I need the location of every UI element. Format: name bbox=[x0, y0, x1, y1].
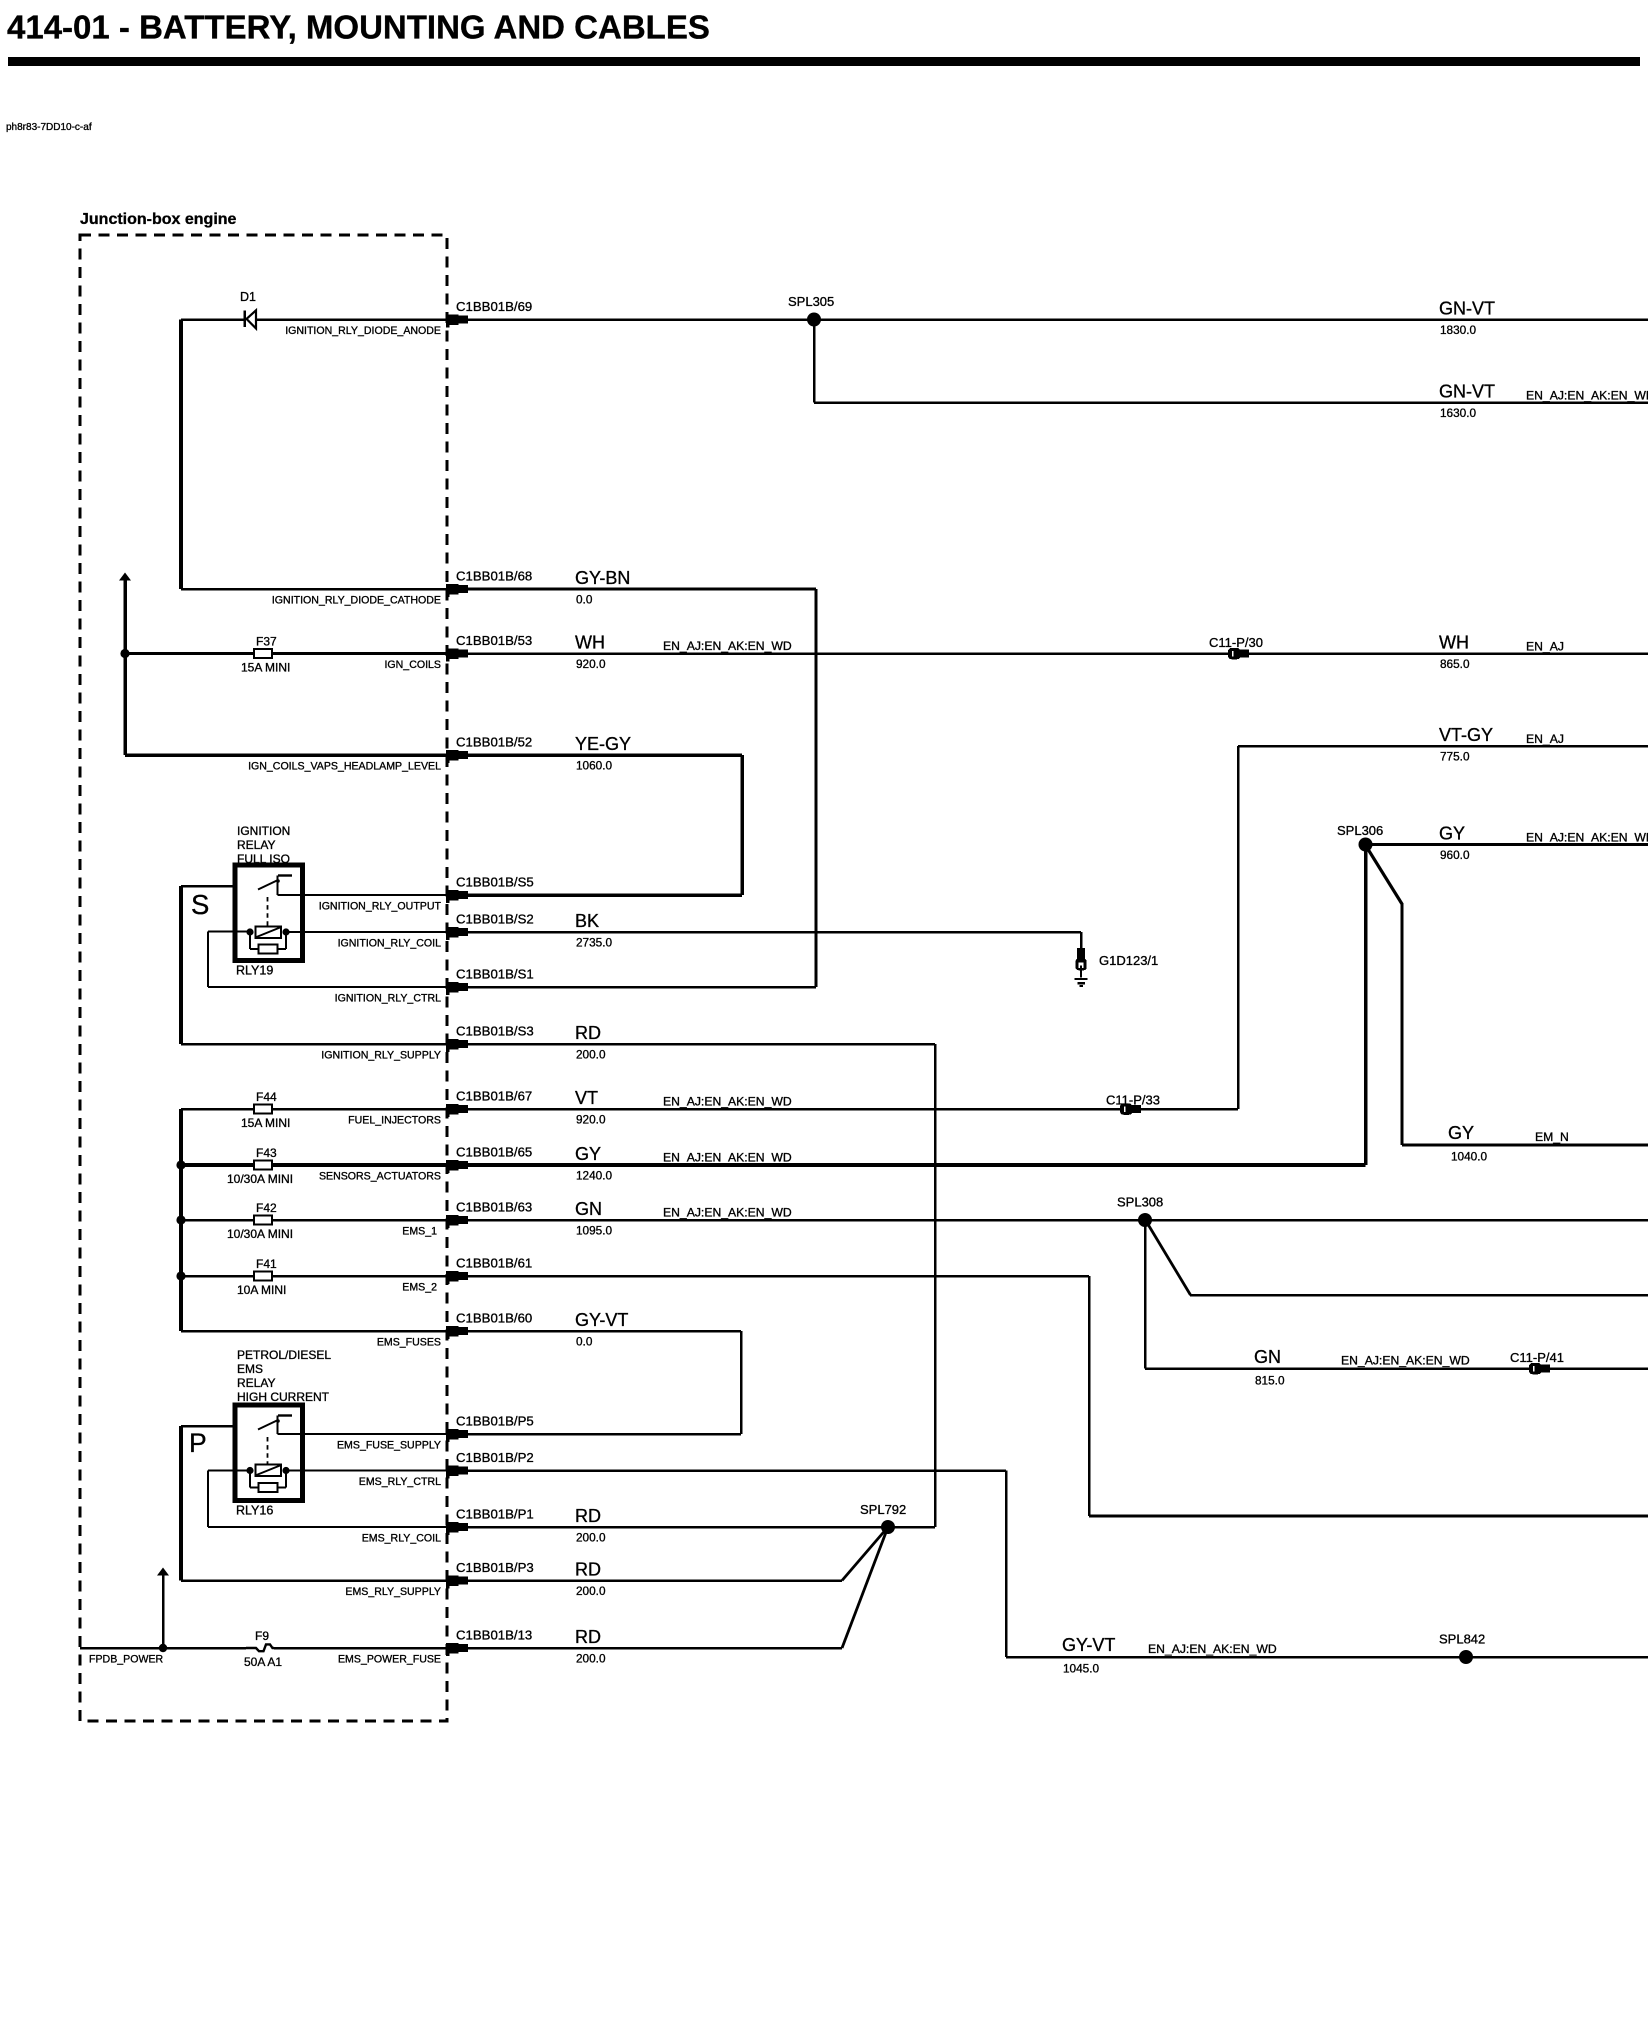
power arrow up (FPDB feed) bbox=[157, 1568, 169, 1649]
wire VT C11-P/33 to riser bbox=[1141, 1108, 1238, 1111]
relay RLY19 switch bbox=[258, 876, 292, 896]
label C1BB01B/67 bbox=[456, 1089, 532, 1104]
svg-text:PETROL/DIESEL: PETROL/DIESEL bbox=[237, 1348, 331, 1362]
connector C11-P/33 bbox=[1106, 1093, 1160, 1115]
svg-text:SPL305: SPL305 bbox=[788, 294, 834, 309]
wire: relay P coil left to ctrl bbox=[207, 1470, 446, 1529]
signal label EMS_RLY_CTRL bbox=[359, 1476, 441, 1488]
label C1BB01B/69 bbox=[456, 299, 532, 314]
svg-text:200.0: 200.0 bbox=[576, 1048, 606, 1062]
wire label GY-BN (0.0) bbox=[575, 568, 630, 607]
svg-text:EMS_FUSES: EMS_FUSES bbox=[377, 1337, 441, 1349]
svg-text:10/30A MINI: 10/30A MINI bbox=[227, 1172, 293, 1186]
fuse F37 bbox=[241, 635, 290, 675]
svg-text:C1BB01B/P5: C1BB01B/P5 bbox=[456, 1414, 534, 1429]
relay RLY19 actuator dashed link bbox=[267, 897, 269, 926]
wire FPDB_POWER row bbox=[80, 1647, 446, 1650]
wire EMS_FUSES row bbox=[181, 1330, 446, 1333]
svg-text:IGNITION: IGNITION bbox=[237, 824, 290, 838]
label C1BB01B/68 bbox=[456, 569, 532, 584]
svg-text:C11-P/41: C11-P/41 bbox=[1510, 1350, 1564, 1365]
svg-text:3: 3 bbox=[449, 1163, 453, 1170]
svg-text:EN_AJ: EN_AJ bbox=[1526, 732, 1564, 746]
wire RD pin P3 to diagonal bbox=[468, 1579, 842, 1582]
signal label IGNITION_RLY_DIODE_CATHODE bbox=[272, 595, 441, 607]
fuse F41 bbox=[237, 1257, 286, 1297]
svg-text:EMS_POWER_FUSE: EMS_POWER_FUSE bbox=[338, 1654, 441, 1666]
relay RLY16 name bbox=[236, 1504, 273, 1518]
wire label WH (865.0) bbox=[1439, 633, 1564, 672]
connector C11-P/30 bbox=[1209, 635, 1263, 659]
svg-text:D1: D1 bbox=[240, 290, 256, 304]
svg-text:0.0: 0.0 bbox=[576, 593, 593, 607]
fuse bus vertical bbox=[179, 1109, 183, 1331]
wire: relay S coil left to ctrl bbox=[207, 931, 446, 989]
pin C1BB01B/S2 bbox=[446, 927, 468, 940]
svg-text:C1BB01B/52: C1BB01B/52 bbox=[456, 735, 532, 750]
svg-text:0.0: 0.0 bbox=[576, 1335, 593, 1349]
relay RLY16 coil bbox=[256, 1465, 282, 1477]
splice SPL308 bbox=[1117, 1195, 1163, 1228]
wire label GN (1095.0) bbox=[575, 1199, 792, 1238]
wire F37 row bbox=[125, 652, 446, 655]
svg-text:RELAY: RELAY bbox=[237, 838, 275, 852]
svg-text:10A MINI: 10A MINI bbox=[237, 1283, 286, 1297]
svg-text:F9: F9 bbox=[255, 1629, 269, 1643]
svg-text:200.0: 200.0 bbox=[576, 1652, 606, 1666]
svg-text:15A MINI: 15A MINI bbox=[241, 1116, 290, 1130]
svg-text:G1D123/1: G1D123/1 bbox=[1099, 953, 1158, 968]
fuse F42 bbox=[227, 1201, 293, 1241]
label C1BB01B/P3 bbox=[456, 1560, 534, 1575]
splice SPL792 bbox=[860, 1502, 906, 1534]
signal label EMS_FUSES bbox=[377, 1337, 441, 1349]
svg-text:RELAY: RELAY bbox=[237, 1376, 275, 1390]
wire: riser to VT-GY row bbox=[1237, 746, 1240, 1109]
label C1BB01B/P5 bbox=[456, 1414, 534, 1429]
svg-text:GY: GY bbox=[1448, 1123, 1474, 1143]
wire: SPL308 diagonal branch bbox=[1146, 1221, 1191, 1295]
svg-text:SPL306: SPL306 bbox=[1337, 823, 1383, 838]
svg-text:EMS_RLY_COIL: EMS_RLY_COIL bbox=[362, 1533, 441, 1545]
wire label GN-VT (1830.0) bbox=[1439, 299, 1495, 338]
wire VT pin 67 to C11-P/33 bbox=[468, 1108, 1121, 1111]
wire RD pin 13 to diagonal bbox=[468, 1647, 842, 1650]
svg-text:3: 3 bbox=[449, 1646, 453, 1653]
relay RLY19 coil terminal dots bbox=[246, 928, 289, 935]
splice SPL305 bbox=[788, 294, 834, 327]
svg-text:C1BB01B/53: C1BB01B/53 bbox=[456, 633, 532, 648]
svg-text:IGNITION_RLY_CTRL: IGNITION_RLY_CTRL bbox=[335, 993, 441, 1005]
svg-text:200.0: 200.0 bbox=[576, 1531, 606, 1545]
svg-text:C1BB01B/P3: C1BB01B/P3 bbox=[456, 1560, 534, 1575]
svg-text:SENSORS_ACTUATORS: SENSORS_ACTUATORS bbox=[319, 1171, 441, 1183]
svg-text:IGN_COILS_VAPS_HEADLAMP_LEVEL: IGN_COILS_VAPS_HEADLAMP_LEVEL bbox=[248, 761, 441, 773]
splice SPL842 bbox=[1439, 1632, 1485, 1665]
junction box dashed border bbox=[80, 235, 447, 1721]
fuse F9 strip bbox=[244, 1629, 282, 1669]
pin C1BB01B/P3 bbox=[446, 1575, 468, 1588]
wire label WH (920.0) bbox=[575, 633, 792, 672]
wire pin S1 stub bbox=[468, 986, 816, 989]
wire label GY-VT (0.0) bbox=[575, 1310, 628, 1349]
svg-text:GN-VT: GN-VT bbox=[1439, 382, 1495, 402]
svg-text:3: 3 bbox=[449, 1469, 453, 1476]
wire: relay S supply bus vertical bbox=[179, 886, 183, 1044]
signal label IGNITION_RLY_CTRL bbox=[335, 993, 441, 1005]
wire GY SPL306 to right edge bbox=[1366, 843, 1648, 846]
svg-text:960.0: 960.0 bbox=[1440, 848, 1470, 862]
fuse F43 bbox=[227, 1146, 293, 1186]
junction dot F42 bbox=[176, 1215, 185, 1224]
splice SPL306 bbox=[1337, 823, 1383, 852]
wire GY-VT pin 60 loop bbox=[468, 1330, 742, 1436]
pin C1BB01B/61 bbox=[446, 1271, 468, 1284]
junction dot F37 feed bbox=[120, 649, 129, 658]
svg-text:3: 3 bbox=[449, 1329, 453, 1336]
pin C1BB01B/13 bbox=[446, 1643, 468, 1656]
svg-text:920.0: 920.0 bbox=[576, 1113, 606, 1127]
ground G1D123/1 bbox=[1075, 948, 1159, 987]
svg-text:FUEL_INJECTORS: FUEL_INJECTORS bbox=[348, 1115, 441, 1127]
svg-text:3: 3 bbox=[449, 1107, 453, 1114]
label C1BB01B/53 bbox=[456, 633, 532, 648]
svg-text:RD: RD bbox=[575, 1506, 601, 1526]
svg-text:3: 3 bbox=[449, 652, 453, 659]
label C1BB01B/60 bbox=[456, 1311, 532, 1326]
relay RLY19 captions bbox=[237, 824, 290, 866]
wire: diode loop vertical (anode branch) bbox=[179, 320, 183, 590]
svg-text:FPDB_POWER: FPDB_POWER bbox=[89, 1654, 164, 1666]
svg-text:3: 3 bbox=[449, 1525, 453, 1532]
pin C1BB01B/65 bbox=[446, 1160, 468, 1173]
sheet reference text bbox=[6, 122, 92, 133]
svg-text:920.0: 920.0 bbox=[576, 657, 606, 671]
signal label EMS_FUSE_SUPPLY bbox=[337, 1440, 441, 1452]
pin C1BB01B/69 bbox=[446, 314, 468, 327]
wire WH pin 53 to C11-P/30 bbox=[468, 652, 1229, 655]
svg-text:GN-VT: GN-VT bbox=[1439, 299, 1495, 319]
svg-text:3: 3 bbox=[449, 930, 453, 937]
wire: vertical 68 to S1 row bbox=[815, 589, 818, 987]
relay RLY16 captions bbox=[237, 1348, 331, 1404]
wire label RD (200.0) P3 bbox=[575, 1560, 606, 1599]
label C1BB01B/P1 bbox=[456, 1507, 534, 1522]
relay RLY19 name bbox=[236, 964, 273, 978]
wire GN SPL308 to right edge bbox=[1145, 1219, 1648, 1222]
wire label YE-GY (1060.0) bbox=[575, 734, 631, 773]
junction dot F43 bbox=[176, 1160, 185, 1169]
svg-text:1045.0: 1045.0 bbox=[1063, 1662, 1100, 1676]
pin C1BB01B/P1 bbox=[446, 1522, 468, 1535]
svg-text:2: 2 bbox=[449, 318, 453, 325]
svg-text:200.0: 200.0 bbox=[576, 1584, 606, 1598]
wire: relay S coil to pin S2 bbox=[286, 931, 446, 933]
signal label EMS_RLY_SUPPLY bbox=[345, 1586, 441, 1598]
svg-text:RD: RD bbox=[575, 1560, 601, 1580]
wire: relay P supply to pin P3 bbox=[181, 1579, 446, 1582]
wire GN-VT pin 69 to SPL305 bbox=[468, 318, 814, 321]
signal label IGNITION_RLY_COIL bbox=[338, 938, 442, 950]
svg-text:1630.0: 1630.0 bbox=[1440, 406, 1477, 420]
svg-text:GY-VT: GY-VT bbox=[575, 1310, 628, 1330]
wire: diagonal P3 to SPL792 bbox=[842, 1527, 888, 1581]
relay RLY19 letter S bbox=[191, 889, 209, 920]
wire: diode D1 to pin 69 bbox=[256, 318, 446, 321]
svg-text:ph8r83-7DD10-c-af: ph8r83-7DD10-c-af bbox=[6, 122, 92, 133]
svg-text:EM_N: EM_N bbox=[1535, 1130, 1569, 1144]
signal label IGNITION_RLY_SUPPLY bbox=[321, 1050, 441, 1062]
svg-text:C1BB01B/P2: C1BB01B/P2 bbox=[456, 1450, 534, 1465]
wire: relay S output to pin S5 bbox=[278, 894, 447, 896]
svg-text:3: 3 bbox=[449, 985, 453, 992]
junction dot FPDB feed bbox=[159, 1644, 167, 1652]
wire: SPL306 diagonal branch bbox=[1366, 846, 1404, 1145]
svg-text:3: 3 bbox=[449, 1218, 453, 1225]
wire GN pin 63 to SPL308 bbox=[468, 1219, 1145, 1222]
wire: relay P supply bus vertical bbox=[179, 1426, 183, 1581]
svg-text:1060.0: 1060.0 bbox=[576, 759, 613, 773]
svg-text:EN_AJ:EN_AK:EN_WD: EN_AJ:EN_AK:EN_WD bbox=[663, 1095, 792, 1109]
wire label GY (1240.0) bbox=[575, 1144, 792, 1183]
svg-text:IGNITION_RLY_DIODE_ANODE: IGNITION_RLY_DIODE_ANODE bbox=[285, 325, 441, 337]
power arrow up (F37 feed) bbox=[119, 573, 131, 756]
wire YE-GY row 52 bbox=[125, 753, 446, 757]
svg-text:EN_AJ:EN_AK:EN_WD: EN_AJ:EN_AK:EN_WD bbox=[1526, 831, 1648, 845]
label C1BB01B/63 bbox=[456, 1200, 532, 1215]
wire: diagonal 13 to SPL792 bbox=[842, 1527, 888, 1648]
svg-text:EN_AJ:EN_AK:EN_WD: EN_AJ:EN_AK:EN_WD bbox=[1526, 389, 1648, 403]
svg-text:SPL308: SPL308 bbox=[1117, 1195, 1163, 1210]
svg-text:EN_AJ:EN_AK:EN_WD: EN_AJ:EN_AK:EN_WD bbox=[663, 639, 792, 653]
wire YE-GY pin 52 loop bbox=[468, 753, 744, 897]
svg-text:F37: F37 bbox=[256, 635, 277, 649]
wire: relay P coil to pin P2 bbox=[286, 1470, 446, 1472]
svg-text:F41: F41 bbox=[256, 1257, 277, 1271]
relay RLY16 actuator dashed link bbox=[267, 1437, 269, 1464]
svg-text:HIGH CURRENT: HIGH CURRENT bbox=[237, 1390, 330, 1404]
signal label SENSORS_ACTUATORS bbox=[319, 1171, 441, 1183]
svg-text:GY-VT: GY-VT bbox=[1062, 1635, 1115, 1655]
wire: relay P output to pin P5 bbox=[278, 1433, 447, 1435]
wire: vertical 61 drop bbox=[1088, 1276, 1091, 1516]
wire GY-BN pin 68 to corner bbox=[468, 588, 816, 591]
svg-text:SPL842: SPL842 bbox=[1439, 1632, 1485, 1647]
svg-text:RD: RD bbox=[575, 1023, 601, 1043]
svg-text:C11-P/33: C11-P/33 bbox=[1106, 1093, 1160, 1108]
wire RD pin P1 to riser bbox=[468, 1526, 935, 1529]
label C1BB01B/65 bbox=[456, 1145, 532, 1160]
wire row 1516 to right edge bbox=[1089, 1515, 1648, 1518]
svg-text:WH: WH bbox=[1439, 633, 1469, 653]
svg-text:S: S bbox=[191, 889, 209, 920]
svg-text:C1BB01B/S3: C1BB01B/S3 bbox=[456, 1024, 534, 1039]
label C1BB01B/52 bbox=[456, 735, 532, 750]
svg-text:1830.0: 1830.0 bbox=[1440, 323, 1477, 337]
title rule bbox=[8, 57, 1640, 66]
svg-text:865.0: 865.0 bbox=[1440, 657, 1470, 671]
svg-text:1240.0: 1240.0 bbox=[576, 1169, 613, 1183]
junction dot F41 bbox=[176, 1271, 185, 1280]
svg-text:3: 3 bbox=[449, 753, 453, 760]
signal label FPDB_POWER bbox=[89, 1654, 164, 1666]
svg-text:775.0: 775.0 bbox=[1440, 750, 1470, 764]
wire F44 row bbox=[181, 1108, 446, 1111]
svg-text:C11-P/30: C11-P/30 bbox=[1209, 635, 1263, 650]
relay RLY19 resistor loop bbox=[249, 932, 287, 954]
svg-text:VT-GY: VT-GY bbox=[1439, 725, 1493, 745]
pin C1BB01B/52 bbox=[446, 750, 468, 763]
fuse F44 bbox=[241, 1090, 290, 1130]
wire label GY (1040.0) bbox=[1448, 1123, 1569, 1164]
pin C1BB01B/P5 bbox=[446, 1429, 468, 1442]
svg-text:EN_AJ:EN_AK:EN_WD: EN_AJ:EN_AK:EN_WD bbox=[663, 1206, 792, 1220]
svg-text:F43: F43 bbox=[256, 1146, 277, 1160]
wire GN-VT SPL305 to right edge bbox=[814, 318, 1648, 321]
wire label RD (200.0) P1 bbox=[575, 1506, 606, 1545]
junction box label bbox=[80, 211, 237, 228]
label C1BB01B/61 bbox=[456, 1256, 532, 1271]
svg-text:C1BB01B/67: C1BB01B/67 bbox=[456, 1089, 532, 1104]
svg-text:C1BB01B/63: C1BB01B/63 bbox=[456, 1200, 532, 1215]
wire: SPL305 drop vertical bbox=[813, 320, 816, 403]
wire label RD (200.0) S3 bbox=[575, 1023, 606, 1062]
svg-text:C1BB01B/69: C1BB01B/69 bbox=[456, 299, 532, 314]
signal label EMS_RLY_COIL bbox=[362, 1533, 441, 1545]
signal label EMS_1 bbox=[402, 1226, 437, 1238]
svg-text:C1BB01B/60: C1BB01B/60 bbox=[456, 1311, 532, 1326]
wire label VT (920.0) bbox=[575, 1088, 792, 1127]
wire: vertical P2 drop bbox=[1005, 1471, 1008, 1658]
svg-text:C1BB01B/S5: C1BB01B/S5 bbox=[456, 875, 534, 890]
page title bbox=[7, 9, 710, 46]
pin C1BB01B/53 bbox=[446, 648, 468, 661]
svg-text:P: P bbox=[189, 1428, 207, 1458]
relay RLY16 box bbox=[235, 1405, 303, 1501]
svg-text:3: 3 bbox=[449, 1579, 453, 1586]
pin C1BB01B/S3 bbox=[446, 1039, 468, 1052]
label C1BB01B/S3 bbox=[456, 1024, 534, 1039]
svg-text:3: 3 bbox=[449, 1432, 453, 1439]
pin C1BB01B/68 bbox=[446, 584, 468, 597]
svg-text:C1BB01B/65: C1BB01B/65 bbox=[456, 1145, 532, 1160]
svg-text:VT: VT bbox=[575, 1088, 598, 1108]
wire: relay S supply entry bbox=[181, 885, 261, 888]
svg-text:YE-GY: YE-GY bbox=[575, 734, 631, 754]
svg-text:3: 3 bbox=[449, 1042, 453, 1049]
wire label GN-VT (1630.0) bbox=[1439, 382, 1648, 421]
svg-text:3: 3 bbox=[449, 1274, 453, 1281]
svg-text:IGNITION_RLY_COIL: IGNITION_RLY_COIL bbox=[338, 938, 442, 950]
wire label GY (960.0) bbox=[1439, 824, 1648, 863]
wire: junction box bus to diode D1 bbox=[181, 318, 245, 321]
wire RD pin S3 to corner bbox=[468, 1043, 935, 1046]
wire label BK (2735.0) bbox=[575, 911, 613, 950]
svg-text:EMS_RLY_CTRL: EMS_RLY_CTRL bbox=[359, 1476, 441, 1488]
ground lead G1D123/1 bbox=[1080, 932, 1083, 948]
svg-text:EMS: EMS bbox=[237, 1362, 263, 1376]
wire: riser to SPL306 bbox=[1364, 845, 1368, 1166]
svg-text:GY-BN: GY-BN bbox=[575, 568, 630, 588]
svg-text:WH: WH bbox=[575, 633, 605, 653]
wire branch row 1295 to right edge bbox=[1190, 1294, 1648, 1297]
wire GY-VT row 1657 to right edge bbox=[1006, 1656, 1648, 1659]
wire label GY-VT (1045.0) bbox=[1062, 1635, 1277, 1676]
relay RLY19 coil bbox=[256, 927, 282, 939]
svg-text:C1BB01B/13: C1BB01B/13 bbox=[456, 1628, 532, 1643]
label C1BB01B/S5 bbox=[456, 875, 534, 890]
pin C1BB01B/P2 bbox=[446, 1465, 468, 1478]
signal label IGN_COILS bbox=[384, 659, 441, 671]
svg-text:C1BB01B/61: C1BB01B/61 bbox=[456, 1256, 532, 1271]
wire label RD (200.0) 13 bbox=[575, 1627, 606, 1666]
relay RLY16 switch bbox=[258, 1416, 292, 1435]
wire label VT-GY (775.0) bbox=[1439, 725, 1564, 764]
signal label EMS_POWER_FUSE bbox=[338, 1654, 441, 1666]
wire pin P2 to corner bbox=[468, 1469, 1006, 1472]
wire pin 61 to corner bbox=[468, 1275, 1089, 1278]
svg-text:EMS_FUSE_SUPPLY: EMS_FUSE_SUPPLY bbox=[337, 1440, 441, 1452]
svg-text:IGNITION_RLY_DIODE_CATHODE: IGNITION_RLY_DIODE_CATHODE bbox=[272, 595, 441, 607]
svg-text:RLY19: RLY19 bbox=[236, 964, 273, 978]
svg-text:SPL792: SPL792 bbox=[860, 1502, 906, 1517]
svg-text:EMS_RLY_SUPPLY: EMS_RLY_SUPPLY bbox=[345, 1586, 441, 1598]
svg-text:RD: RD bbox=[575, 1627, 601, 1647]
wire VT-GY row to right edge bbox=[1238, 745, 1648, 748]
pin C1BB01B/60 bbox=[446, 1326, 468, 1339]
signal label EMS_2 bbox=[402, 1282, 437, 1294]
svg-text:F42: F42 bbox=[256, 1201, 277, 1215]
label C1BB01B/S2 bbox=[456, 912, 534, 927]
wire: SPL308 drop vertical bbox=[1144, 1220, 1147, 1369]
svg-text:EN_AJ:EN_AK:EN_WD: EN_AJ:EN_AK:EN_WD bbox=[663, 1151, 792, 1165]
wire BK pin S2 to ground drop bbox=[468, 931, 1081, 934]
wire GY pin 65 to SPL306 riser bbox=[468, 1163, 1366, 1167]
svg-text:1040.0: 1040.0 bbox=[1451, 1150, 1488, 1164]
label C1BB01B/13 bbox=[456, 1628, 532, 1643]
svg-text:1095.0: 1095.0 bbox=[576, 1224, 613, 1238]
wire F42 row bbox=[181, 1219, 446, 1222]
svg-text:2735.0: 2735.0 bbox=[576, 936, 613, 950]
relay RLY16 coil terminal dots bbox=[246, 1467, 289, 1474]
svg-text:F44: F44 bbox=[256, 1090, 277, 1104]
svg-text:EN_AJ:EN_AK:EN_WD: EN_AJ:EN_AK:EN_WD bbox=[1341, 1354, 1470, 1368]
wire WH C11-P/30 to right edge bbox=[1249, 652, 1648, 655]
svg-text:Junction-box engine: Junction-box engine bbox=[80, 211, 237, 228]
svg-text:10/30A MINI: 10/30A MINI bbox=[227, 1227, 293, 1241]
wire: relay S supply to pin S3 bbox=[181, 1043, 446, 1046]
label C1BB01B/S1 bbox=[456, 967, 534, 982]
relay RLY16 letter P bbox=[189, 1428, 207, 1458]
wire GN-VT branch to right edge bbox=[814, 401, 1648, 404]
svg-text:414-01 - BATTERY, MOUNTING AND: 414-01 - BATTERY, MOUNTING AND CABLES bbox=[7, 9, 710, 46]
svg-text:15A MINI: 15A MINI bbox=[241, 661, 290, 675]
signal label IGNITION_RLY_DIODE_ANODE bbox=[285, 325, 441, 337]
svg-text:IGNITION_RLY_SUPPLY: IGNITION_RLY_SUPPLY bbox=[321, 1050, 441, 1062]
svg-text:50A A1: 50A A1 bbox=[244, 1655, 282, 1669]
svg-text:3: 3 bbox=[449, 587, 453, 594]
diode D1 bbox=[240, 290, 256, 329]
svg-text:GY: GY bbox=[1439, 824, 1465, 844]
wire F41 row bbox=[181, 1275, 446, 1278]
svg-text:GY: GY bbox=[575, 1144, 601, 1164]
label C1BB01B/P2 bbox=[456, 1450, 534, 1465]
signal label IGNITION_RLY_OUTPUT bbox=[319, 901, 442, 913]
wire: diode loop to pin 68 bbox=[181, 588, 446, 591]
svg-text:IGN_COILS: IGN_COILS bbox=[384, 659, 441, 671]
relay RLY16 resistor loop bbox=[249, 1471, 287, 1493]
wire: relay P supply entry bbox=[181, 1425, 261, 1428]
